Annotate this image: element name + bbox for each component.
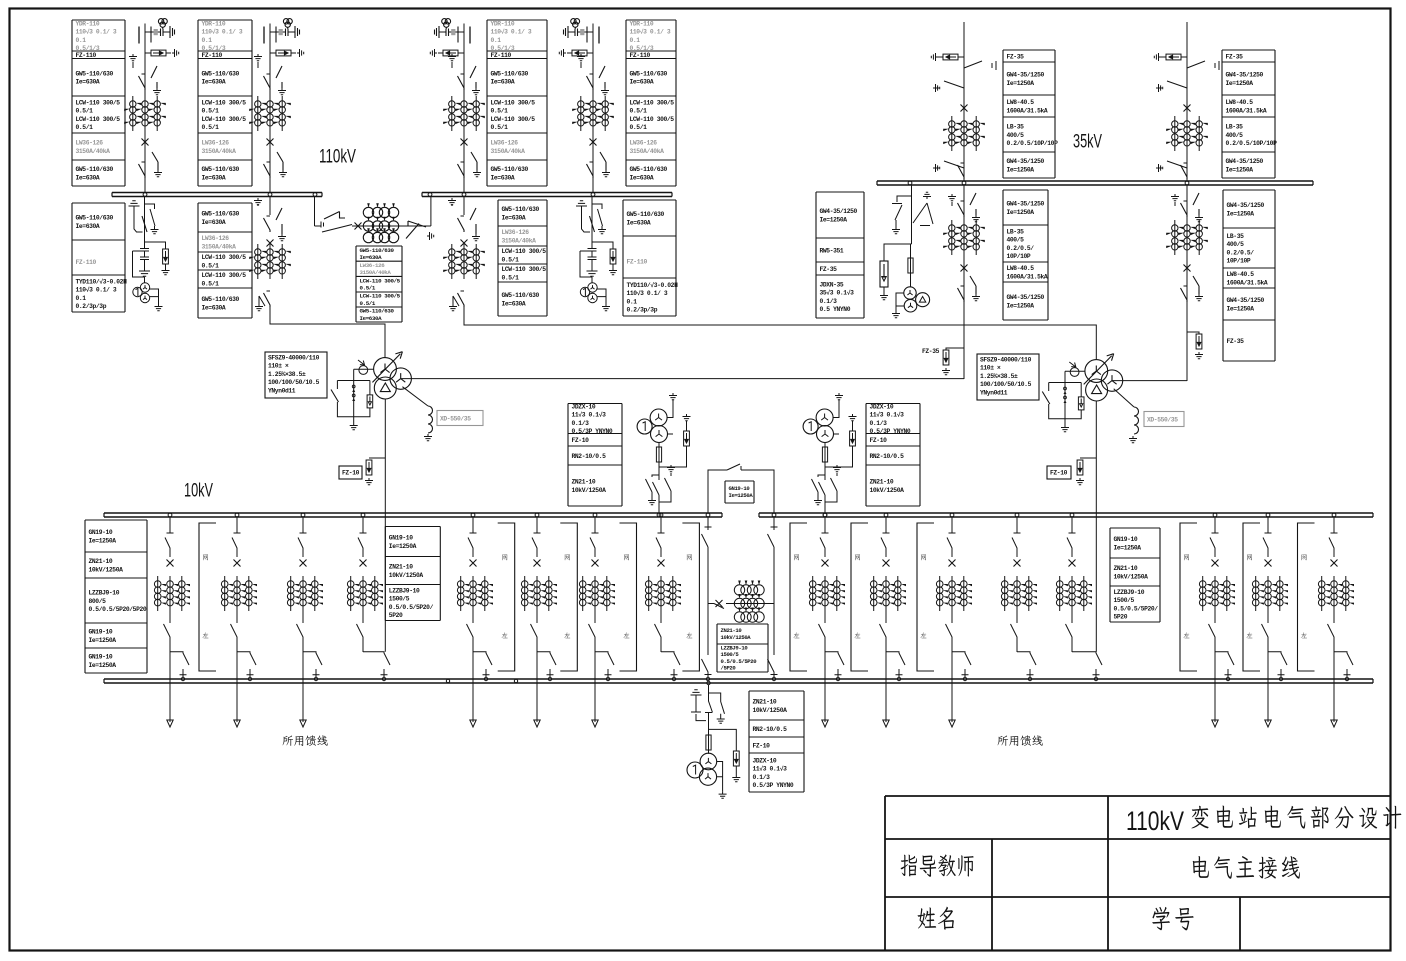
svg-text:FZ-10: FZ-10: [342, 470, 360, 477]
second disconnector + ground: [145, 204, 156, 227]
disconnector GN19-10: [1066, 621, 1073, 645]
ground: [297, 49, 304, 57]
svg-text:0.1/3: 0.1/3: [753, 774, 771, 781]
svg-text:10P/10P: 10P/10P: [1227, 258, 1251, 265]
disconnector GN19-10: [297, 621, 304, 645]
CT LCW-110 300/5: [249, 96, 291, 131]
cubicle frame bracket: [682, 523, 699, 671]
withdrawable contact: [167, 518, 174, 534]
wire: bay vertical: [963, 22, 965, 181]
svg-text:0.5/1: 0.5/1: [630, 124, 648, 131]
svg-text:LCW-110 300/5: LCW-110 300/5: [360, 293, 401, 300]
tap junction node: [1094, 677, 1097, 680]
earthing switch + ground: [892, 196, 912, 227]
label box: bay WL3 equipment table: [487, 20, 547, 186]
svg-text:3150A/40kA: 3150A/40kA: [76, 148, 111, 155]
disconnector GN19-10: [298, 538, 303, 558]
svg-text:GW4-35/1250: GW4-35/1250: [1007, 201, 1045, 208]
svg-text:FZ-10: FZ-10: [870, 437, 888, 444]
earthing switch + ground: [1156, 161, 1187, 168]
svg-text:LCW-110 300/5: LCW-110 300/5: [630, 116, 675, 123]
LV winding (D): [1086, 379, 1108, 401]
svg-text:LCW-110 300/5: LCW-110 300/5: [76, 116, 121, 123]
wire to lower bus: [660, 645, 662, 652]
svg-text:Ie=1250A: Ie=1250A: [729, 492, 754, 499]
label: station feeders (left): [282, 735, 293, 745]
disconnector GW5-110/630: [264, 162, 271, 178]
withdrawable contact: [1014, 518, 1021, 534]
ground: [735, 766, 737, 775]
outgoing feeder line with arrow: [592, 645, 598, 727]
disconnector GN19-10: [1067, 538, 1072, 558]
svg-text:FZ-10: FZ-10: [753, 742, 771, 749]
disconnector blade: [964, 61, 996, 70]
lower-bus tap branch: [595, 652, 614, 677]
svg-text:RN2-10/0.5: RN2-10/0.5: [572, 453, 607, 460]
svg-text:1600A/31.5kA: 1600A/31.5kA: [1226, 107, 1267, 114]
svg-text:3150A/40kA: 3150A/40kA: [202, 148, 237, 155]
withdrawable contact: [534, 518, 541, 534]
label FZ-10: [339, 466, 362, 479]
svg-text:ZN21-10: ZN21-10: [1114, 565, 1138, 572]
svg-text:GW5-110/630: GW5-110/630: [360, 247, 395, 254]
svg-text:LCW-110 300/5: LCW-110 300/5: [630, 100, 675, 107]
spark gaps: [352, 385, 355, 388]
svg-text:0.1: 0.1: [76, 295, 87, 302]
svg-text:LB-35: LB-35: [1226, 124, 1244, 131]
svg-text:Ie=1250A: Ie=1250A: [1227, 305, 1255, 312]
svg-text:0.5/3P YNYN0: 0.5/3P YNYN0: [870, 428, 911, 435]
CT LZZBJ9-10: [645, 576, 681, 611]
ground: [430, 49, 437, 57]
svg-text:LCW-110 300/5: LCW-110 300/5: [202, 100, 247, 107]
disconnector GN19-10: [947, 538, 952, 558]
svg-text:0.5/1: 0.5/1: [360, 285, 376, 292]
disconnector GW4-35/1250: [958, 286, 965, 302]
svg-text:FZ-35: FZ-35: [1007, 53, 1025, 60]
svg-text:Ie=1250A: Ie=1250A: [1007, 80, 1035, 87]
wire: bay vertical: [144, 24, 146, 193]
svg-text:GW5-110/630: GW5-110/630: [360, 308, 395, 315]
outgoing feeder line with arrow: [534, 645, 540, 727]
svg-text:Ie=630A: Ie=630A: [502, 300, 526, 307]
svg-text:GW4-35/1250: GW4-35/1250: [1227, 202, 1265, 209]
wire: [963, 185, 965, 379]
svg-text:GW4-35/1250: GW4-35/1250: [1226, 158, 1264, 165]
CT LZZBJ9-10: [154, 576, 190, 611]
label: zuo: [623, 632, 629, 638]
svg-text:GW5-110/630: GW5-110/630: [491, 166, 529, 173]
svg-text:10kV/1250A: 10kV/1250A: [753, 707, 788, 714]
label box: bay WL4 equipment table: [626, 20, 676, 186]
wire: bay vertical: [1186, 22, 1188, 181]
svg-text:TYD110/√3-0.02H: TYD110/√3-0.02H: [76, 279, 128, 286]
svg-text:0.2/0.5/10P/10P: 0.2/0.5/10P/10P: [1007, 140, 1059, 147]
svg-text:Ie=630A: Ie=630A: [202, 174, 226, 181]
wire: [1267, 611, 1269, 621]
wire: bay to transformer T2: [464, 305, 1096, 360]
label box: bus tie equipment table: [356, 246, 402, 322]
arrester FZ-35 branch: [1187, 332, 1199, 334]
bus: 110kV I: [112, 193, 322, 197]
disconnector GW5-110/630: [458, 162, 465, 178]
CT LZZBJ9-10: [870, 576, 906, 611]
bus junction node: [446, 679, 449, 682]
svg-text:LW8-40.5: LW8-40.5: [1226, 99, 1254, 106]
svg-text:0.5/3P YNYN0: 0.5/3P YNYN0: [753, 782, 794, 789]
disconnector blade: [276, 66, 286, 95]
label box: bay T2 table: [498, 200, 547, 316]
ground: [1161, 56, 1166, 58]
label: wang: [565, 554, 570, 560]
arrester FZ-10 branch: [709, 729, 737, 751]
label: wang: [624, 554, 629, 560]
svg-text:GW5-110/630: GW5-110/630: [630, 166, 668, 173]
label: station feeders (right): [997, 735, 1008, 745]
earthing switch + ground: [577, 54, 585, 68]
station transformer windings: [699, 753, 716, 785]
bus junction node: [657, 513, 661, 517]
svg-text:GW4-35/1250: GW4-35/1250: [1007, 294, 1045, 301]
tap junction node: [181, 677, 184, 680]
label XD-550/35: [1144, 412, 1184, 427]
svg-text:Ie=1250A: Ie=1250A: [1007, 166, 1035, 173]
breaker ZN21-10: [1212, 560, 1219, 567]
breaker ZN21-10: [1014, 560, 1021, 567]
CT LZZBJ9-10: [579, 576, 615, 611]
label box: 10kV feeder table: [85, 520, 147, 673]
ground: [255, 296, 265, 311]
svg-text:3150A/40kA: 3150A/40kA: [491, 148, 526, 155]
ground: [471, 152, 481, 177]
bus junction node: [535, 513, 539, 517]
contact bar: [469, 27, 471, 44]
svg-text:0.5/1: 0.5/1: [491, 108, 509, 115]
svg-text:400/5: 400/5: [1007, 132, 1025, 139]
disconnector GN19-10: [655, 621, 662, 645]
outgoing feeder line with arrow: [300, 645, 306, 727]
svg-text:RN2-10/0.5: RN2-10/0.5: [753, 726, 788, 733]
withdrawable contact: [822, 518, 829, 534]
tap junction node: [382, 677, 385, 680]
wire: [463, 197, 465, 216]
arrester FZ-110: [276, 50, 291, 56]
breaker ZN21-10: [822, 560, 829, 567]
label box: 35kV PT bay table: [816, 192, 864, 318]
earthing switch right + ground: [833, 465, 841, 476]
ground: [165, 264, 167, 268]
wire: [708, 750, 710, 754]
svg-text:FZ-10: FZ-10: [1050, 470, 1068, 477]
svg-text:TYD110/√3-0.02H: TYD110/√3-0.02H: [627, 282, 679, 289]
breaker LW8-40.5: [961, 105, 968, 112]
bus junction node: [950, 513, 954, 517]
svg-text:Ie=1250A: Ie=1250A: [1226, 166, 1254, 173]
tap junction node: [1345, 677, 1348, 680]
bus junction node: [301, 513, 305, 517]
svg-text:0.2/3p/3p: 0.2/3p/3p: [76, 303, 107, 310]
svg-text:Ie=1250A: Ie=1250A: [1114, 544, 1142, 551]
svg-text:0.5/1: 0.5/1: [502, 274, 520, 281]
svg-text:GN19-10: GN19-10: [729, 485, 751, 492]
svg-text:GW4-35/1250: GW4-35/1250: [1007, 72, 1045, 79]
ground: [172, 49, 179, 57]
title block frame: [885, 796, 1391, 951]
svg-text:YNyn0d11: YNyn0d11: [980, 389, 1008, 396]
svg-text:LW36-126: LW36-126: [76, 140, 104, 147]
svg-text:0.2/3p/3p: 0.2/3p/3p: [627, 307, 658, 314]
disconnector GW4-35/1250: [1181, 163, 1188, 179]
svg-text:GW5-110/630: GW5-110/630: [491, 71, 529, 78]
disconnector GN19-10: [1210, 538, 1215, 558]
earthing switch + ground: [933, 81, 964, 88]
disconnector GN19-10: [1262, 621, 1269, 645]
svg-text:JDXN-35: JDXN-35: [820, 282, 844, 289]
disconnector blade: [151, 66, 161, 95]
ground: [150, 289, 159, 304]
withdrawable contact: [1331, 518, 1338, 534]
svg-text:11√3 0.1√3: 11√3 0.1√3: [572, 412, 607, 419]
disconnector GN19-10: [819, 621, 826, 645]
ground: [139, 267, 150, 276]
wire to lower bus: [1016, 645, 1018, 652]
disconnector GN19-10: [820, 538, 825, 558]
label: zuo: [854, 632, 860, 638]
svg-text:10kV/1250A: 10kV/1250A: [389, 572, 424, 579]
svg-text:XD-550/35: XD-550/35: [1147, 417, 1178, 424]
svg-text:1500/5: 1500/5: [1114, 597, 1135, 604]
HV winding (Y): [374, 358, 397, 381]
lower-bus tap branch: [1017, 652, 1036, 677]
outgoing feeder line with arrow: [822, 645, 828, 727]
svg-text:10kV/1250A: 10kV/1250A: [870, 487, 905, 494]
label: zuo: [920, 632, 926, 638]
lower-bus tap branch: [1334, 652, 1353, 677]
label box: 10kV PT table: [866, 404, 920, 507]
label box: bay WL1 equipment table: [72, 20, 125, 186]
arrester + ground above: [683, 414, 691, 421]
wire to lower bus: [1071, 645, 1073, 652]
bus: 10kV II: [759, 513, 1373, 517]
svg-text:JDZX-10: JDZX-10: [870, 404, 894, 411]
svg-text:Ie=1250A: Ie=1250A: [89, 637, 117, 644]
svg-text:400/5: 400/5: [1226, 132, 1244, 139]
svg-text:Ie=1250A: Ie=1250A: [389, 543, 417, 550]
breaker LW36-126: [461, 139, 468, 146]
disconnector GN19-10: [1011, 621, 1018, 645]
arc coil XD-550/35: [1134, 407, 1139, 434]
breaker LW36-126: [461, 240, 468, 247]
svg-text:Ie=630A: Ie=630A: [202, 79, 226, 86]
svg-text:RN2-10/0.5: RN2-10/0.5: [870, 453, 905, 460]
wire: [1016, 611, 1018, 621]
lower-bus tap branch: [1072, 652, 1102, 677]
svg-text:GW5-110/630: GW5-110/630: [76, 215, 114, 222]
svg-text:YDR-110: YDR-110: [202, 21, 226, 28]
disconnector GN19-10: [1329, 538, 1334, 558]
svg-text:FZ-110: FZ-110: [630, 52, 651, 59]
disconnector GN19-10: [468, 538, 473, 558]
wire: T1 10kV lead (crosses bus I to lower bus): [384, 399, 386, 652]
svg-text:LCW-110 300/5: LCW-110 300/5: [202, 116, 247, 123]
lower-bus tap branch: [661, 652, 680, 677]
disconnector GN19-10: [358, 538, 363, 558]
disconnector blade: [970, 193, 980, 222]
svg-text:LW8-40.5: LW8-40.5: [1227, 271, 1255, 278]
CT LZZBJ9-10: [1318, 576, 1354, 611]
CT LCW-110 300/5: [249, 244, 291, 279]
label: wang: [855, 554, 860, 560]
lower-bus tap branch: [537, 652, 556, 677]
svg-text:JDZX-10: JDZX-10: [572, 404, 596, 411]
arrester: [163, 249, 169, 264]
10kV bus-section tie (lower link): [702, 518, 712, 548]
disconnector blade: [470, 208, 480, 241]
label XD-550/35: [437, 411, 483, 426]
breaker ZN21-10: [234, 560, 241, 567]
ground: [152, 152, 162, 177]
lower-bus tap branch: [363, 652, 390, 677]
ground: [277, 152, 287, 177]
bus junction node: [1185, 181, 1189, 185]
cubicle frame bracket: [790, 523, 807, 671]
svg-text:1600A/31.5kA: 1600A/31.5kA: [1007, 273, 1048, 280]
withdrawable contact: [658, 518, 665, 534]
arrester FZ-110: [151, 50, 166, 56]
svg-text:0.1/3: 0.1/3: [820, 298, 838, 305]
bus junction node: [268, 193, 272, 197]
svg-text:3150A/40kA: 3150A/40kA: [502, 237, 537, 244]
MV winding (Y): [390, 368, 411, 389]
svg-text:FZ-110: FZ-110: [491, 52, 512, 59]
label box: bay WL5 table: [1003, 50, 1058, 178]
tie CT LZZBJ9-10: [734, 581, 764, 623]
bus junction node: [884, 513, 888, 517]
svg-text:5P20: 5P20: [1114, 614, 1128, 621]
outgoing feeder line with arrow: [167, 645, 173, 727]
withdrawable contact: [1212, 518, 1219, 534]
disconnector GN19-10: [531, 621, 538, 645]
svg-text:SFSZ9-40000/110: SFSZ9-40000/110: [980, 357, 1032, 364]
tap junction node: [1226, 677, 1229, 680]
label: zuo: [1246, 632, 1252, 638]
arrester FZ-10 branch: [1080, 457, 1096, 459]
CT LZZBJ9-10: [936, 576, 972, 611]
CT LCW-110 300/5: [443, 96, 485, 131]
svg-text:LCW-110 300/5: LCW-110 300/5: [502, 248, 547, 255]
label box: bay WL4 PT table: [623, 200, 678, 316]
ground: [717, 762, 723, 792]
label box: station transformer table: [749, 691, 804, 792]
CT LZZBJ9-10: [347, 576, 383, 611]
svg-text:GN19-10: GN19-10: [89, 654, 113, 661]
label box: bay T1 table: [198, 203, 252, 318]
svg-text:FZ-35: FZ-35: [1226, 53, 1244, 60]
wire: bay vertical: [463, 24, 465, 193]
svg-text:GN19-10: GN19-10: [389, 535, 413, 542]
label: name: [918, 907, 937, 928]
10kV bus-section tie (upper link): [708, 464, 774, 513]
bus junction node: [706, 513, 710, 517]
outgoing feeder line with arrow: [1331, 645, 1337, 727]
svg-text:0.5/1: 0.5/1: [360, 300, 376, 307]
lower-bus tap branch: [1268, 652, 1287, 677]
divider tap loop: [580, 251, 592, 277]
disconnector GN19-10: [467, 621, 474, 645]
contact bar: [598, 27, 600, 44]
tap junction node: [672, 677, 675, 680]
disconnector: [653, 482, 660, 513]
svg-text:GW4-35/1250: GW4-35/1250: [820, 208, 858, 215]
breaker ZN21-10: [883, 560, 890, 567]
CT LB-35 400/5: [1166, 116, 1208, 151]
wire: [472, 611, 474, 621]
bus junction node: [235, 513, 239, 517]
disconnector GN19-10: [1012, 538, 1017, 558]
disconnector GN19-10: [231, 621, 238, 645]
svg-text:LW36-126: LW36-126: [202, 140, 230, 147]
cubicle frame bracket: [851, 523, 868, 671]
wire: [824, 443, 826, 481]
lower-bus tap branch: [1215, 652, 1234, 677]
svg-text:FZ-35: FZ-35: [1227, 338, 1245, 345]
disconnector GN19-10: [1209, 621, 1216, 645]
ground: [350, 423, 358, 430]
svg-text:ZN21-10: ZN21-10: [89, 558, 113, 565]
CT LCW-110 300/5: [443, 244, 485, 279]
disconnector blade: [276, 208, 286, 241]
bus junction node: [593, 513, 597, 517]
earthing switch + ground: [129, 54, 137, 68]
CT LZZBJ9-10: [287, 576, 323, 611]
wire: T1 35kV lead: [401, 378, 964, 380]
svg-text:400/5: 400/5: [1227, 241, 1245, 248]
metering winding circle: [803, 419, 818, 434]
CT LZZBJ9-10: [1199, 576, 1235, 611]
label: wang: [1184, 554, 1189, 560]
arrester FZ-35: [1181, 56, 1187, 58]
wire: bay vertical: [269, 24, 271, 193]
arrester FZ-35 branch: [946, 348, 964, 350]
svg-text:GW4-35/1250: GW4-35/1250: [1227, 297, 1265, 304]
CT LZZBJ9-10: [1056, 576, 1092, 611]
second disconnector + ground: [709, 693, 725, 717]
svg-text:0.5/0.5/5P20/: 0.5/0.5/5P20/: [1114, 605, 1159, 612]
withdrawable contact: [300, 518, 307, 534]
label box: bus tie table: [717, 624, 768, 672]
cubicle frame bracket: [1243, 523, 1260, 671]
label: wang: [1247, 554, 1252, 560]
earthing switch + ground: [576, 201, 587, 210]
svg-text:0.5/3P YNYN0: 0.5/3P YNYN0: [572, 428, 613, 435]
tie disconnector: [402, 221, 426, 239]
svg-text:110kV: 110kV: [319, 147, 356, 168]
svg-text:Ie=630A: Ie=630A: [360, 254, 383, 261]
wire: [702, 547, 712, 677]
svg-text:Ie=630A: Ie=630A: [630, 79, 654, 86]
svg-text:1500/5: 1500/5: [389, 596, 410, 603]
disconnector GW5-110/630: [264, 74, 271, 90]
label: student id: [1152, 907, 1170, 930]
voltage transformer TYD110 windings: [133, 283, 150, 303]
label: zuo: [202, 632, 208, 638]
tap junction node: [836, 677, 839, 680]
divider tap loop: [133, 251, 145, 277]
svg-text:0.5/0.5/5P20/: 0.5/0.5/5P20/: [389, 604, 434, 611]
bus junction node: [462, 193, 466, 197]
breaker ZN21-10: [534, 560, 541, 567]
CT LCW-110 300/5: [124, 96, 166, 131]
